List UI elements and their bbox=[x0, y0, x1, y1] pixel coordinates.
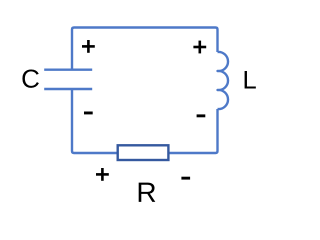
plus sign top-right (inductor +) bbox=[193, 41, 206, 54]
label R bbox=[139, 183, 156, 202]
wire: inductor bottom down, corner to resistor right side bbox=[168, 109, 217, 153]
capacitor C plates bbox=[44, 70, 92, 89]
resistor R body bbox=[118, 145, 169, 160]
plus sign top-left (capacitor +) bbox=[82, 40, 95, 53]
label C bbox=[22, 69, 38, 87]
minus sign right of resistor bbox=[181, 177, 190, 180]
minus sign below inductor bbox=[197, 114, 206, 117]
wire: capacitor bottom plate down, along bottom to resistor bbox=[72, 89, 118, 153]
plus sign bottom-left (resistor +) bbox=[96, 168, 109, 181]
wire: capacitor top plate up, across top, down right side to inductor bbox=[72, 28, 218, 70]
inductor L coil bbox=[218, 52, 229, 109]
label L bbox=[245, 71, 256, 89]
minus sign below capacitor bbox=[84, 112, 93, 115]
